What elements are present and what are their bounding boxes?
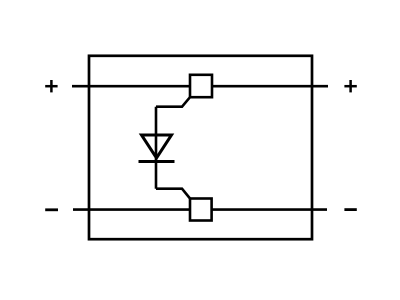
diode D1 cathode bar bbox=[139, 160, 175, 163]
wire diode bottom jog bbox=[156, 189, 190, 199]
wire diode top jog bbox=[156, 97, 190, 107]
wire - bottom through-wire bbox=[73, 208, 327, 211]
node + left label bbox=[45, 80, 57, 92]
terminal square bottom bbox=[190, 199, 212, 221]
wire + top through-wire bbox=[72, 85, 328, 88]
node + right label bbox=[344, 80, 356, 92]
node - right label bbox=[344, 208, 356, 211]
wire diode vertical through-line bbox=[155, 107, 158, 189]
outer box bbox=[89, 56, 312, 239]
terminal square top bbox=[190, 75, 212, 97]
diode D1 triangle bbox=[142, 135, 172, 158]
node - left label bbox=[45, 208, 58, 211]
